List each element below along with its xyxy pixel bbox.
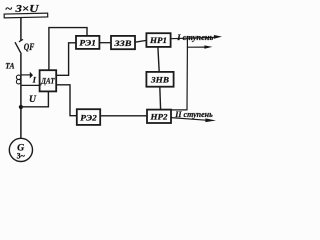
svg-text:НР2: НР2 bbox=[149, 112, 168, 122]
svg-text:РЭ1: РЭ1 bbox=[79, 38, 96, 48]
svg-text:I ступень: I ступень bbox=[176, 33, 213, 42]
arrowhead stage I bbox=[214, 35, 222, 39]
generator G circle bbox=[9, 138, 32, 161]
wire I from TA bbox=[21, 74, 30, 76]
svg-text:ЗЗВ: ЗЗВ bbox=[113, 38, 131, 48]
wire RE2 to NR2 bbox=[100, 115, 147, 117]
transformer TA winding circle 1 bbox=[16, 75, 20, 79]
transformer TA winding circle 2 bbox=[16, 80, 20, 84]
svg-text:I: I bbox=[32, 75, 37, 85]
QF blade bbox=[15, 42, 21, 54]
svg-text:НР1: НР1 bbox=[149, 35, 167, 45]
wire DAT right to RE2 left bbox=[56, 85, 77, 116]
QF contact tick bbox=[19, 39, 23, 41]
wire branch down from stage I line bbox=[187, 38, 204, 47]
wire QF to generator bbox=[20, 54, 22, 138]
wire RE1 to ZZV bbox=[99, 42, 111, 44]
wire ZZV to NR1 bbox=[135, 40, 146, 42]
wire ZNV to NR2 bbox=[159, 87, 162, 110]
wire bus to QF bbox=[20, 17, 22, 40]
svg-text:3~: 3~ bbox=[17, 151, 26, 160]
wire U tap bbox=[21, 91, 49, 106]
svg-text:РЭ2: РЭ2 bbox=[80, 112, 97, 122]
wire NR1 output stage I bbox=[171, 37, 215, 38]
block NR2 bbox=[147, 110, 171, 123]
block DAT bbox=[40, 70, 57, 91]
svg-text:ТА: ТА bbox=[5, 61, 15, 70]
junction dot U tap bbox=[19, 105, 23, 109]
wire TA to DAT bbox=[21, 84, 40, 86]
block RE2 bbox=[77, 109, 100, 125]
svg-text:II ступень: II ступень bbox=[174, 110, 213, 119]
wire NR1 to ZNV bbox=[158, 47, 159, 72]
arrowhead branch bbox=[204, 45, 212, 48]
wire NR2 output stage II bbox=[171, 118, 206, 121]
block NR1 bbox=[146, 33, 170, 47]
wire DAT top over to RE1 top bbox=[49, 28, 87, 71]
svg-text:U: U bbox=[29, 94, 37, 105]
block RE1 bbox=[76, 36, 99, 49]
svg-text:~ 3×U: ~ 3×U bbox=[5, 3, 40, 15]
arrowhead I bbox=[30, 72, 33, 79]
busbar 3xU bbox=[4, 13, 48, 18]
wire branch to NR2 top bbox=[171, 47, 187, 110]
svg-text:ДАТ: ДАТ bbox=[40, 77, 55, 86]
block ZZV bbox=[111, 36, 135, 49]
arrowhead stage II bbox=[205, 118, 216, 122]
wire DAT right to RE1 left bbox=[56, 43, 76, 76]
svg-text:QF: QF bbox=[24, 42, 35, 52]
svg-text:ЗНВ: ЗНВ bbox=[150, 75, 169, 85]
block ZNV bbox=[146, 72, 173, 87]
